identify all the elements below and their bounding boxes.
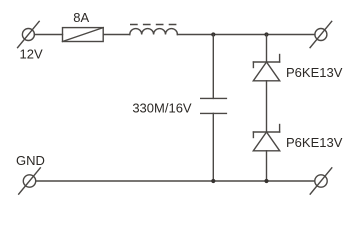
junction node D (bottom of diode branch) <box>264 179 268 183</box>
fuse F1 <box>63 28 104 42</box>
wire node B down to diode D1 <box>266 35 268 63</box>
svg-text:8A: 8A <box>73 10 89 25</box>
wire fuse to inductor <box>103 34 130 36</box>
inductor L1 <box>130 25 178 35</box>
diode D2 (TVS) <box>253 125 279 151</box>
wire capacitor down to bottom rail <box>212 113 214 181</box>
svg-text:330M/16V: 330M/16V <box>132 100 192 115</box>
junction node B (top of diode branch) <box>264 32 268 36</box>
wire node A down to capacitor <box>212 35 214 99</box>
junction node A (top of capacitor branch) <box>211 32 215 36</box>
svg-text:12V: 12V <box>20 47 43 62</box>
terminal J1 (12V input) <box>18 21 40 47</box>
capacitor C1 <box>201 98 227 113</box>
wire D1 to D2 <box>266 81 268 132</box>
wire inductor to terminal J2 (top rail) <box>177 34 315 36</box>
wire bottom rail (GND to J4) <box>36 180 315 182</box>
diode D1 (TVS) <box>253 55 279 81</box>
svg-text:P6KE13V: P6KE13V <box>286 65 343 80</box>
wire J1 to fuse <box>34 34 62 36</box>
terminal J3 (GND) <box>19 168 41 194</box>
junction node C (bottom of capacitor branch) <box>211 179 215 183</box>
terminal J2 (top right output) <box>310 21 332 47</box>
wire D2 to bottom rail <box>266 151 268 181</box>
svg-text:P6KE13V: P6KE13V <box>286 135 343 150</box>
svg-text:GND: GND <box>16 153 45 168</box>
terminal J4 (bottom right) <box>310 168 332 194</box>
